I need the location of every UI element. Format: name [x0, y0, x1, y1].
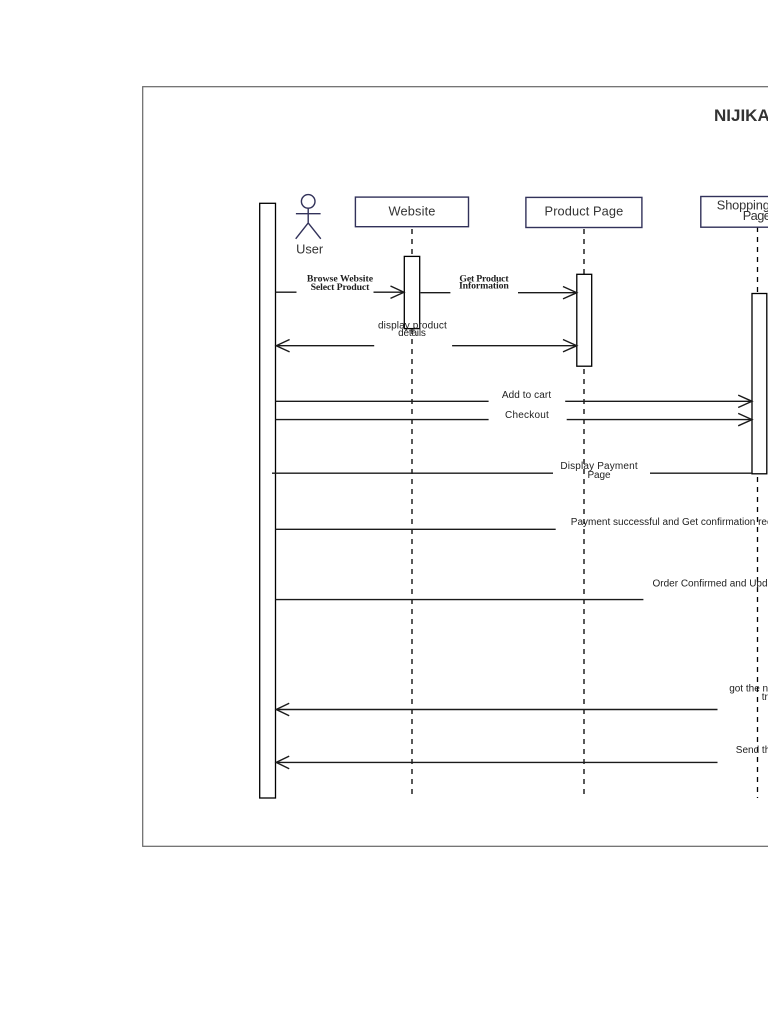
message M7 Payment successful wire [276, 528, 556, 530]
message M3 display product details wire (double headed) [276, 340, 577, 352]
message M4 Add to cart wire [276, 395, 753, 407]
svg-text:Page: Page [743, 208, 768, 223]
svg-text:Checkout: Checkout [505, 410, 549, 421]
svg-text:Send the confirmation receipt: Send the confirmation receipt [736, 745, 768, 756]
activation Shopping Cart Page [752, 294, 767, 474]
lifeline dashed Website [411, 229, 413, 798]
svg-text:Website: Website [389, 203, 436, 218]
message M9 got the notification wire [276, 703, 717, 716]
User activation bar [260, 203, 276, 798]
svg-text:Select Product: Select Product [311, 282, 371, 293]
svg-text:transaction: transaction [762, 692, 768, 703]
activation Website [404, 256, 419, 328]
svg-text:Product Page: Product Page [545, 204, 624, 219]
message M1 Browse Website Select Product wire [276, 286, 405, 298]
svg-text:Add to cart: Add to cart [502, 390, 551, 401]
message M5 Checkout wire [276, 413, 753, 425]
svg-text:Payment successful and Get con: Payment successful and Get confirmation … [571, 517, 768, 528]
svg-text:User: User [296, 242, 324, 257]
svg-text:Information: Information [459, 280, 509, 291]
message M6 Display Payment Page wire [272, 472, 752, 474]
svg-text:details: details [398, 328, 426, 339]
lifeline head box Product Page [526, 197, 642, 227]
actor User stick figure [296, 195, 321, 239]
frame border [143, 87, 768, 847]
svg-text:Order Confirmed and Update Ord: Order Confirmed and Update Order Status [653, 578, 768, 589]
svg-text:NIJIKAWA ONLINE SHOPPING: NIJIKAWA ONLINE SHOPPING [714, 106, 768, 125]
message M8 Order Confirmed wire [276, 599, 644, 601]
lifeline dashed Product Page [583, 229, 585, 798]
message M2 Get Product Information wire [421, 287, 577, 299]
activation Product Page [577, 274, 592, 366]
message M10 Send the confirmation wire [276, 756, 717, 769]
svg-text:Page: Page [587, 470, 611, 481]
lifeline dashed Shopping Cart Page [757, 227, 759, 798]
lifeline head box Website [355, 197, 468, 227]
lifeline head box Shopping Cart Page [701, 197, 768, 228]
